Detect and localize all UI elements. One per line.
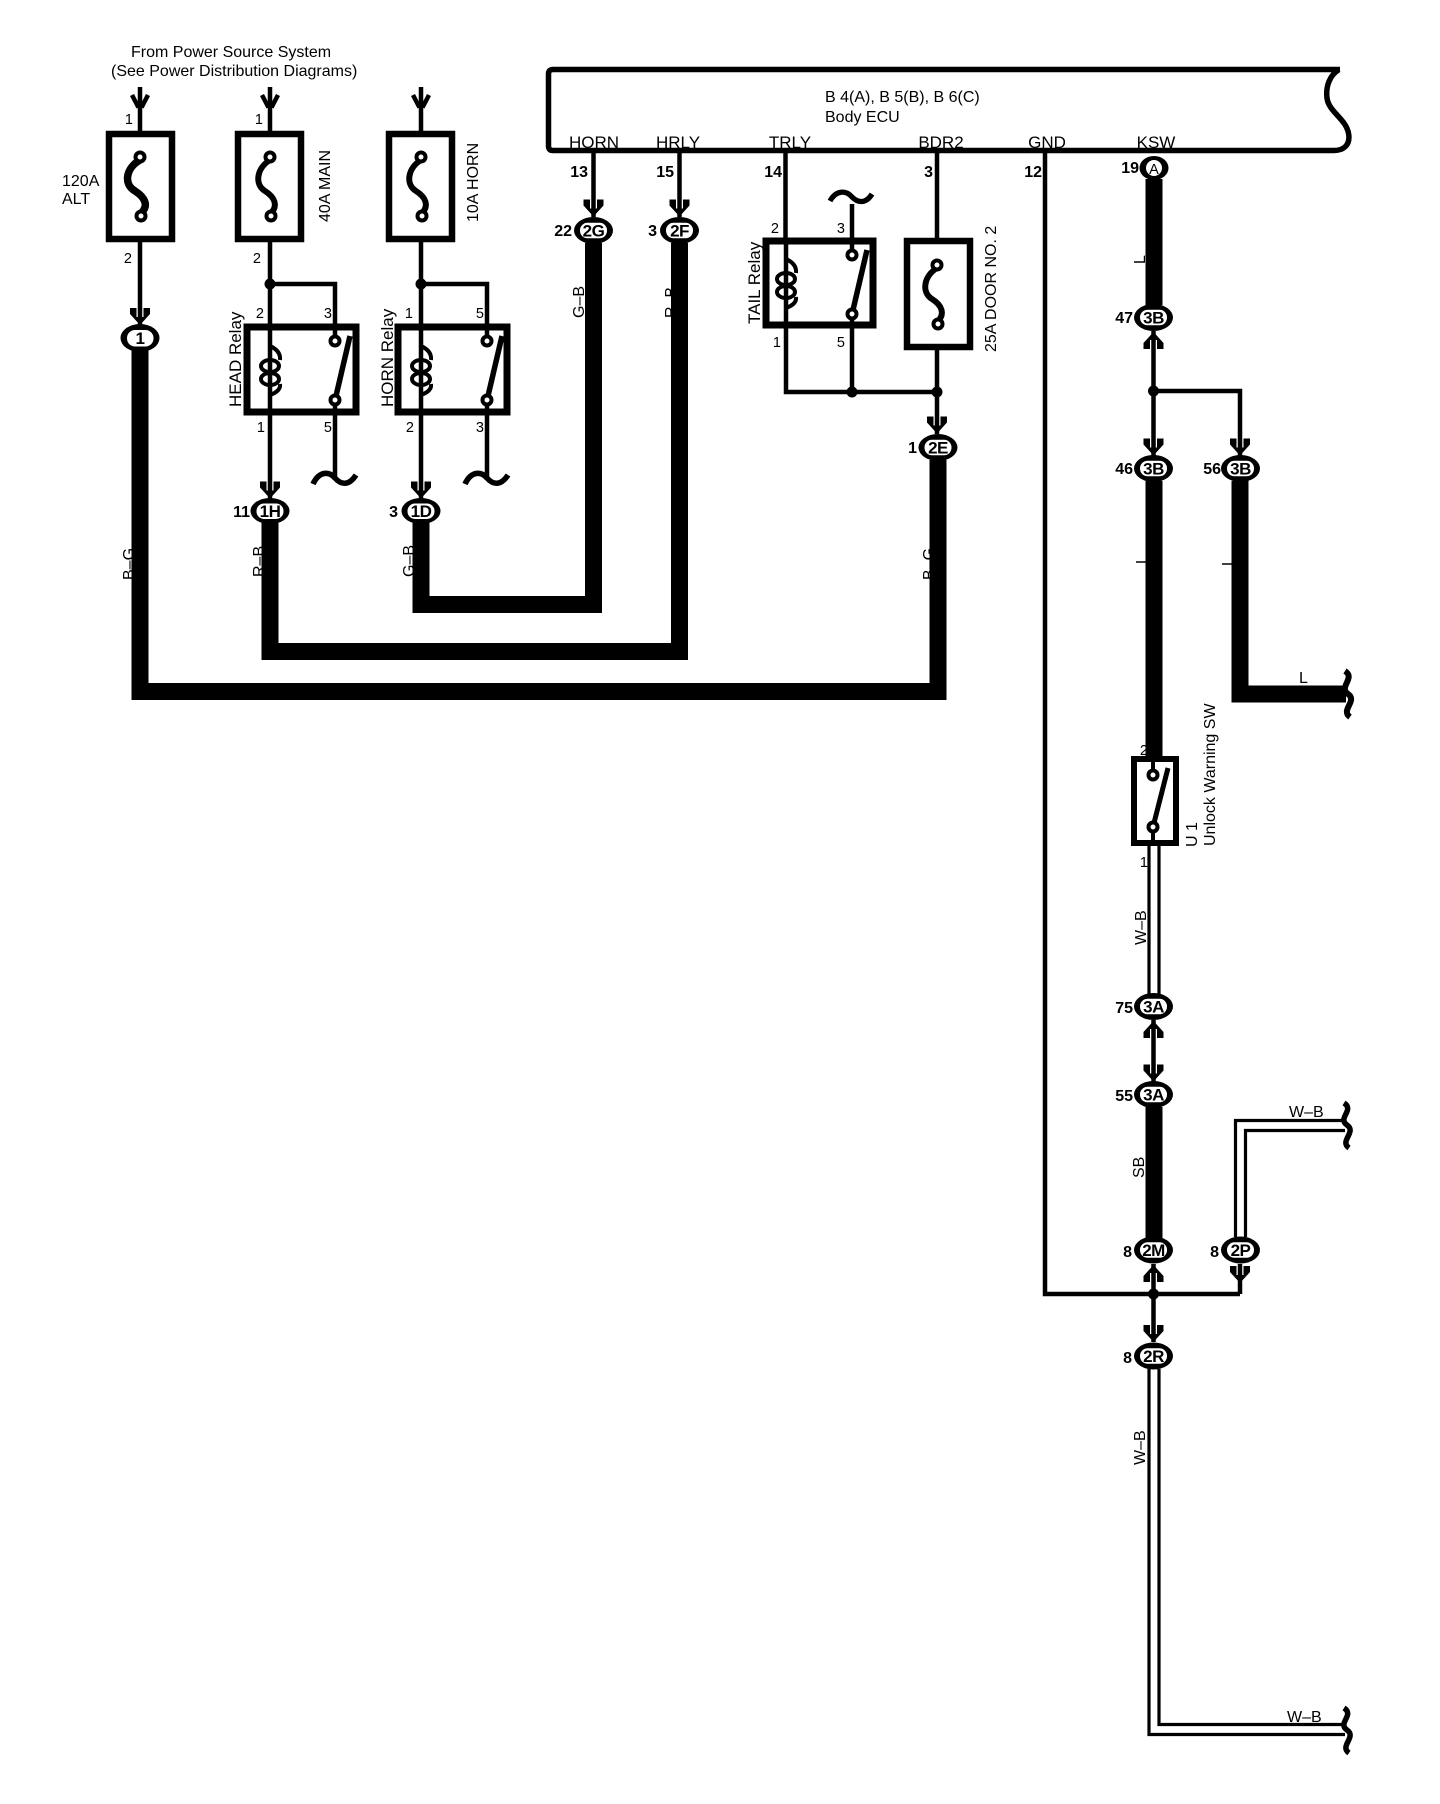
svg-text:1: 1 bbox=[908, 440, 917, 457]
svg-text:3: 3 bbox=[924, 164, 933, 181]
svg-text:2: 2 bbox=[256, 306, 264, 322]
svg-text:3: 3 bbox=[648, 223, 657, 240]
fuse 120A ALT bbox=[62, 134, 172, 239]
wire junction down to 2R bbox=[1151, 1294, 1156, 1342]
power feed arrow into fuse MAIN bbox=[262, 87, 278, 131]
svg-text:R–B: R–B bbox=[251, 546, 268, 577]
svg-text:8: 8 bbox=[1123, 1350, 1132, 1367]
svg-text:1: 1 bbox=[1140, 855, 1148, 871]
wire branch to 3B-56 bbox=[1154, 391, 1241, 456]
wire fuse ALT to connector 1 bbox=[138, 239, 143, 326]
fuse 40A MAIN bbox=[238, 134, 334, 239]
HORN relay bbox=[378, 308, 507, 412]
svg-text:2: 2 bbox=[406, 420, 414, 436]
TAIL relay bbox=[745, 241, 873, 325]
wire BDR2 pin to DOOR fuse bbox=[935, 153, 940, 241]
svg-text:W–B: W–B bbox=[1289, 1104, 1324, 1121]
thick wire G-B from connector 1D to connector 2G bbox=[421, 243, 594, 605]
connector 1D bbox=[402, 498, 441, 524]
connector 1H bbox=[251, 498, 290, 524]
junction dot under DOOR fuse bbox=[932, 387, 943, 398]
svg-text:3A: 3A bbox=[1143, 1086, 1164, 1105]
svg-text:56: 56 bbox=[1203, 461, 1221, 478]
svg-text:3: 3 bbox=[324, 306, 332, 322]
power feed arrow into fuse HORN bbox=[413, 87, 429, 131]
svg-text:15: 15 bbox=[656, 164, 674, 181]
svg-text:8: 8 bbox=[1123, 1244, 1132, 1261]
connector 2M pin 8 bbox=[1134, 1237, 1173, 1264]
connector 2P pin 8 bbox=[1221, 1237, 1260, 1264]
svg-text:SB: SB bbox=[1131, 1157, 1148, 1178]
fuse 25A DOOR NO. 2 bbox=[907, 226, 1000, 352]
svg-text:2E: 2E bbox=[928, 439, 948, 458]
arrow into 2R bbox=[1144, 1325, 1164, 1342]
wire junction down to 3B-46 bbox=[1151, 391, 1156, 456]
wire HRLY pin to connector 2F bbox=[677, 153, 682, 217]
connector A circle at KSW pin bbox=[1140, 156, 1169, 180]
svg-text:Body ECU: Body ECU bbox=[825, 109, 900, 126]
svg-text:46: 46 bbox=[1115, 461, 1133, 478]
svg-text:HORN Relay: HORN Relay bbox=[378, 308, 397, 407]
connector 2F bbox=[660, 217, 699, 244]
svg-text:75: 75 bbox=[1115, 1000, 1133, 1017]
svg-text:2R: 2R bbox=[1143, 1347, 1164, 1366]
wire TAIL relay pin5 down bbox=[850, 325, 855, 392]
svg-text:5: 5 bbox=[476, 306, 484, 322]
svg-text:3B: 3B bbox=[1230, 460, 1251, 479]
svg-text:3B: 3B bbox=[1143, 309, 1164, 328]
wire TAIL relay pin3 open end bbox=[830, 192, 872, 241]
open end squiggle of L wire bbox=[1345, 671, 1351, 717]
svg-text:25A DOOR NO. 2: 25A DOOR NO. 2 bbox=[983, 226, 1000, 352]
svg-text:22: 22 bbox=[554, 223, 572, 240]
svg-text:Unlock Warning SW: Unlock Warning SW bbox=[1202, 703, 1219, 846]
wire TAIL relay pin1 to junction bbox=[786, 325, 937, 392]
svg-text:L: L bbox=[1132, 255, 1149, 264]
open end squiggle of 2P W-B wire bbox=[1344, 1103, 1350, 1148]
arrow into connector 1D bbox=[411, 482, 431, 499]
svg-text:13: 13 bbox=[570, 164, 588, 181]
arrow down from 2P bbox=[1238, 1264, 1243, 1294]
svg-text:B–G: B–G bbox=[921, 548, 938, 580]
wire GND pin down to ground junction bbox=[1045, 153, 1240, 1294]
svg-text:ALT: ALT bbox=[62, 191, 90, 208]
svg-text:19: 19 bbox=[1121, 160, 1139, 177]
svg-text:TAIL Relay: TAIL Relay bbox=[745, 241, 764, 324]
junction dot ground line bbox=[1148, 1289, 1159, 1300]
svg-text:1: 1 bbox=[773, 335, 781, 351]
connector 1 (oval) bbox=[121, 324, 160, 352]
wire HEAD relay pin1 to connector 1H bbox=[268, 412, 273, 499]
arrow into 3B-56 bbox=[1230, 439, 1250, 456]
connector 3B pin 56 bbox=[1221, 455, 1260, 482]
svg-text:G–B: G–B bbox=[401, 545, 418, 577]
double wire W-B from U1 to 3A-75 bbox=[1149, 843, 1159, 994]
svg-text:KSW: KSW bbox=[1137, 133, 1176, 152]
connector 2R pin 8 bbox=[1134, 1343, 1173, 1370]
svg-text:3: 3 bbox=[476, 420, 484, 436]
arrow into connector 2G bbox=[584, 200, 604, 217]
arrow into connector 2F bbox=[670, 200, 690, 217]
svg-text:10A HORN: 10A HORN bbox=[465, 143, 482, 222]
svg-text:2G: 2G bbox=[583, 222, 605, 241]
wire HORN relay pin3 open end bbox=[465, 412, 508, 484]
svg-text:W–B: W–B bbox=[1287, 1709, 1322, 1726]
svg-text:2M: 2M bbox=[1142, 1241, 1165, 1260]
wire branch to HEAD relay pin 3 bbox=[270, 284, 335, 324]
thick wire SB from 3A-55 to 2M bbox=[1146, 1107, 1163, 1238]
connector 3A pin 75 bbox=[1134, 993, 1173, 1020]
header note: From Power Source System bbox=[111, 44, 357, 80]
svg-text:1: 1 bbox=[136, 329, 145, 348]
wire DOOR fuse to connector 2E bbox=[935, 347, 940, 434]
junction dot KSW branch bbox=[1148, 386, 1159, 397]
arrow up into 3B-47 bbox=[1151, 331, 1156, 391]
svg-text:1H: 1H bbox=[260, 502, 281, 521]
connector 2E bbox=[919, 434, 958, 461]
wire fuse HORN to HORN relay coil bbox=[419, 239, 424, 324]
svg-text:HEAD Relay: HEAD Relay bbox=[226, 311, 245, 407]
svg-text:5: 5 bbox=[837, 335, 845, 351]
svg-text:W–B: W–B bbox=[1133, 910, 1150, 945]
wire HEAD relay pin5 open end bbox=[313, 412, 356, 484]
svg-text:2F: 2F bbox=[670, 222, 689, 241]
svg-text:1D: 1D bbox=[411, 502, 432, 521]
svg-text:2P: 2P bbox=[1231, 1241, 1251, 1260]
wire branch to HORN relay pin 5 bbox=[421, 284, 487, 324]
wire HORN relay pin2 to connector 1D bbox=[419, 412, 424, 499]
svg-text:BDR2: BDR2 bbox=[918, 133, 963, 152]
arrow into connector 1H bbox=[260, 482, 280, 499]
svg-text:1: 1 bbox=[405, 306, 413, 322]
svg-text:From Power Source System: From Power Source System bbox=[131, 44, 331, 61]
arrow up into 2M bbox=[1151, 1264, 1156, 1294]
open end squiggle of bottom W-B wire bbox=[1344, 1708, 1350, 1753]
svg-text:L: L bbox=[1134, 555, 1151, 564]
connector 3B pin 47 bbox=[1134, 304, 1173, 331]
svg-text:5: 5 bbox=[324, 420, 332, 436]
svg-text:14: 14 bbox=[764, 164, 782, 181]
arrow into connector 1 bbox=[130, 308, 150, 325]
svg-text:2: 2 bbox=[771, 221, 779, 237]
svg-text:A: A bbox=[1149, 162, 1159, 178]
svg-text:TRLY: TRLY bbox=[769, 133, 811, 152]
double wire W-B from 2R to bottom open end bbox=[1149, 1369, 1345, 1735]
svg-text:B–G: B–G bbox=[121, 548, 138, 580]
arrow into 3A-55 bbox=[1144, 1065, 1164, 1082]
svg-text:HORN: HORN bbox=[569, 133, 619, 152]
ECU box B4(A) B5(B) B6(C) Body ECU bbox=[549, 70, 1349, 153]
thick wire L from A to connector 3B-47 bbox=[1146, 179, 1163, 305]
junction dot pin5 bbox=[847, 387, 858, 398]
svg-text:1: 1 bbox=[257, 420, 265, 436]
svg-text:1: 1 bbox=[125, 112, 133, 128]
wire fuse MAIN to HEAD relay coil bbox=[268, 239, 273, 324]
svg-text:L: L bbox=[1299, 670, 1308, 687]
svg-text:GND: GND bbox=[1028, 133, 1066, 152]
svg-text:L: L bbox=[1220, 557, 1237, 566]
svg-text:HRLY: HRLY bbox=[656, 133, 700, 152]
wire HORN pin to connector 2G bbox=[591, 153, 596, 217]
svg-text:12: 12 bbox=[1024, 164, 1042, 181]
fuse 10A HORN bbox=[389, 134, 482, 239]
svg-text:G–B: G–B bbox=[571, 286, 588, 318]
connector 3B pin 46 bbox=[1134, 455, 1173, 482]
svg-text:40A MAIN: 40A MAIN bbox=[317, 150, 334, 222]
svg-text:2: 2 bbox=[124, 251, 132, 267]
svg-text:55: 55 bbox=[1115, 1088, 1133, 1105]
svg-text:3A: 3A bbox=[1143, 998, 1164, 1017]
double wire W-B from 2P up to open end bbox=[1236, 1121, 1346, 1238]
svg-text:1: 1 bbox=[255, 112, 263, 128]
arrow into connector 2E bbox=[927, 417, 947, 434]
connector 3A pin 55 bbox=[1134, 1081, 1173, 1108]
switch U1 Unlock Warning SW bbox=[1134, 703, 1219, 847]
svg-text:(See Power Distribution Diagra: (See Power Distribution Diagrams) bbox=[111, 63, 357, 80]
power feed arrow into fuse ALT bbox=[132, 87, 148, 131]
connector 2G bbox=[574, 217, 613, 244]
svg-text:U 1: U 1 bbox=[1184, 822, 1201, 847]
svg-text:R–B: R–B bbox=[663, 287, 680, 318]
svg-text:W–B: W–B bbox=[1132, 1430, 1149, 1465]
svg-text:120A: 120A bbox=[62, 173, 100, 190]
arrow into 3B-46 bbox=[1144, 439, 1164, 456]
junction dot below fuse HORN bbox=[416, 279, 427, 290]
thick wire R-B from connector 1H to connector 2F bbox=[270, 243, 680, 652]
svg-text:47: 47 bbox=[1115, 310, 1133, 327]
arrow up into 3A-75 bbox=[1151, 1020, 1156, 1082]
svg-text:2: 2 bbox=[253, 251, 261, 267]
thick wire L from 3B-46 to Unlock Warning SW bbox=[1146, 481, 1163, 757]
wire TRLY pin to TAIL relay coil bbox=[783, 153, 788, 241]
HEAD relay bbox=[226, 311, 356, 412]
thick wire B-G from connector 1 to connector 2E bbox=[140, 350, 938, 692]
svg-text:B 4(A), B 5(B), B 6(C): B 4(A), B 5(B), B 6(C) bbox=[825, 89, 980, 106]
svg-text:3B: 3B bbox=[1143, 460, 1164, 479]
svg-text:11: 11 bbox=[233, 504, 250, 521]
thick wire L from 3B-56 to open end bbox=[1240, 481, 1346, 694]
svg-text:8: 8 bbox=[1210, 1244, 1219, 1261]
svg-text:3: 3 bbox=[389, 504, 398, 521]
junction dot below fuse MAIN bbox=[265, 279, 276, 290]
svg-text:3: 3 bbox=[837, 221, 845, 237]
